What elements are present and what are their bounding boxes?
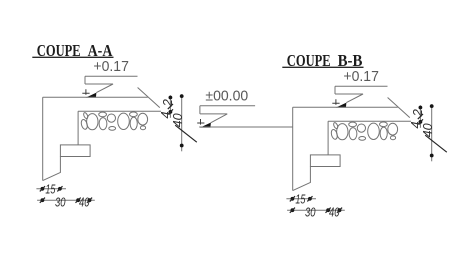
svg-text:2: 2 [160, 98, 175, 107]
svg-text:±00.00: ±00.00 [205, 88, 248, 105]
break diagonal [138, 88, 160, 108]
vertical dim 4/2 [158, 95, 175, 118]
footing step rectangle [60, 145, 90, 157]
wall left edge [42, 97, 44, 180]
gravel box top line [78, 110, 161, 112]
ground level line [199, 126, 293, 128]
vertical dim 40 [170, 94, 197, 151]
svg-text:+0.17: +0.17 [93, 58, 128, 75]
section A-A [36, 58, 196, 209]
title COUPE B-B [282, 51, 363, 70]
gravel box left edge [77, 111, 79, 145]
svg-text:40: 40 [79, 194, 90, 209]
horizontal dim 30/40 [37, 194, 95, 209]
svg-text:40: 40 [170, 113, 185, 128]
horizontal dim 15 [36, 182, 66, 197]
wall bottom break [43, 157, 61, 181]
level marker ±00.00 [197, 106, 255, 128]
gravel stones hatch [80, 112, 147, 130]
title COUPE A-A [32, 41, 113, 60]
level marker +0.17 [82, 76, 137, 97]
section B-B (same geometry translated) [286, 68, 446, 219]
wall top surface line [43, 96, 148, 98]
svg-text:30: 30 [55, 194, 66, 209]
